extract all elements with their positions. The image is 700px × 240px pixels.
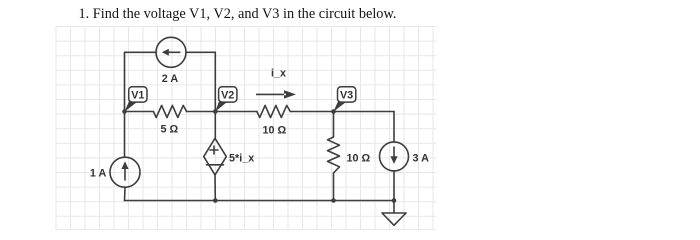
- wire vertical 10 ohm to bottom wire: [333, 173, 335, 201]
- wire 2A source right terminal down to V2: [186, 52, 215, 111]
- svg-text:3 A: 3 A: [413, 153, 430, 165]
- node V2 dot: [213, 109, 218, 114]
- current source 3A (circle): [380, 142, 409, 171]
- wire 10 ohm to V3 node: [290, 111, 333, 113]
- dependent source minus chord: [207, 164, 224, 166]
- V3 callout tail: [333, 102, 346, 112]
- dependent source plus sign: [210, 146, 218, 154]
- current source 3A arrow shaft: [393, 147, 395, 158]
- node label box V1: [129, 87, 147, 102]
- wire V1 up to 2A source left terminal: [125, 52, 157, 111]
- main wire V1 node to 5 ohm resistor: [125, 111, 154, 113]
- node label box V2: [219, 87, 237, 102]
- svg-text:2 A: 2 A: [162, 73, 179, 85]
- resistor 10 ohm horizontal (zigzag): [257, 105, 290, 117]
- node label box V3: [338, 87, 356, 102]
- current arrow i_x: [256, 90, 296, 98]
- ground stub: [393, 201, 395, 213]
- bottom wire: [125, 200, 395, 202]
- svg-text:10 Ω: 10 Ω: [262, 125, 286, 137]
- current source 2A arrowhead: [162, 49, 169, 56]
- svg-text:5 Ω: 5 Ω: [160, 124, 178, 136]
- svg-text:5*i_x: 5*i_x: [229, 153, 254, 165]
- svg-text:V2: V2: [221, 90, 234, 102]
- bottom node below V3 dot: [331, 198, 336, 203]
- wire V3 node down to vertical 10 ohm: [333, 112, 335, 138]
- current source 1A arrow shaft: [124, 168, 126, 180]
- V1 callout tail: [124, 102, 137, 112]
- current source 1A (circle): [110, 157, 140, 187]
- dependent voltage source 5*i_x (diamond): [204, 138, 227, 175]
- current source 2A (circle): [156, 37, 186, 67]
- wire V2 node down to dependent source: [214, 112, 216, 139]
- node V3 dot: [331, 109, 336, 114]
- wire 5 ohm to V2 node: [187, 111, 216, 113]
- V2 callout tail: [215, 102, 227, 112]
- ground triangle: [382, 213, 406, 225]
- current source 3A arrowhead: [390, 156, 397, 164]
- svg-text:10 Ω: 10 Ω: [347, 153, 371, 165]
- wire right corner down to 3A source: [393, 112, 395, 143]
- wire V1 node down to 1A source: [124, 112, 126, 158]
- resistor 10 ohm vertical (zigzag): [328, 137, 340, 173]
- svg-text:i_x: i_x: [271, 68, 286, 80]
- bottom node at ground dot: [392, 198, 397, 203]
- wire V2 node to 10 ohm resistor: [215, 111, 257, 113]
- title text: [79, 6, 397, 23]
- wire 3A source to bottom node: [393, 171, 395, 201]
- svg-text:1 A: 1 A: [90, 168, 107, 180]
- svg-text:V3: V3: [340, 90, 353, 102]
- wire dependent source to bottom wire: [214, 175, 216, 201]
- current source 2A arrow: [168, 51, 180, 53]
- node V1 dot: [122, 109, 127, 114]
- bottom node below V2 dot: [213, 198, 218, 203]
- current source 1A arrowhead: [121, 161, 128, 169]
- wire 1A source to bottom wire: [124, 187, 127, 200]
- resistor 5 ohm (zigzag): [153, 105, 186, 117]
- svg-text:V1: V1: [131, 90, 144, 102]
- wire V3 node to right branch corner: [334, 111, 395, 113]
